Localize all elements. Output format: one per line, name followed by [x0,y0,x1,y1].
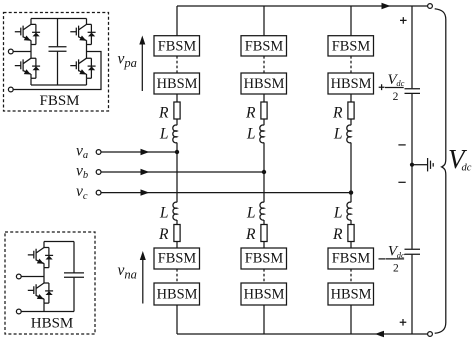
svg-text:FBSM: FBSM [245,251,284,267]
svg-text:L: L [159,126,169,143]
svg-text:R: R [245,105,256,122]
wire leg 3 bottom stub [350,305,352,334]
svg-text:FBSM: FBSM [39,93,79,109]
wire R to FBSM lower leg 2 [263,242,265,249]
wire R to L upper leg 3 [350,119,352,125]
wire dashed link FBSM-HBSM upper leg 1 [176,56,178,73]
wire lower terminal loop to right midpoint [13,52,101,90]
arrow v_pa upper arm voltage [139,36,145,92]
terminal upper HBSM [16,274,21,279]
label -Vdc/2 lower [379,244,406,275]
wire bottom rail HBSM [21,311,74,313]
transistor Q6 lower HBSM with diode D6 [28,283,53,303]
label - below midpoint [398,181,405,183]
wire Q6 emitter stub [43,303,45,311]
wire DC link middle section [411,94,413,249]
HBSM submodule box lower arm leg 3 [328,283,374,305]
node junction DC midpoint [410,163,414,167]
resistor R upper arm leg 1 [158,102,180,122]
wire R to L upper leg 1 [176,119,178,125]
capacitor Cdc1 upper DC link [405,89,421,94]
wire HBSM to R upper leg 3 [350,94,352,102]
transistor Q3 upper-right FBSM with diode D3 [70,24,95,44]
transistor Q5 upper HBSM with diode D5 [28,248,53,268]
wire dashed link FBSM-HBSM lower leg 1 [176,269,178,283]
wire HBSM to R upper leg 2 [263,94,265,102]
svg-text:L: L [333,126,343,143]
inductor L upper arm leg 1 [159,125,177,143]
capacitor C FBSM [49,19,67,86]
FBSM legend dashed enclosure [4,13,109,112]
HBSM submodule box upper arm leg 3 [328,73,374,94]
arrow phase c current [141,189,150,195]
terminal phase v_c [96,190,101,195]
arrow phase a current [141,149,150,155]
transistor Q1 upper-left FBSM with diode D1 [15,24,40,44]
svg-text:R: R [158,105,169,122]
arrow phase b current [141,169,150,175]
resistor R lower arm leg 1 [158,225,180,243]
wire FBSM bottom rail [31,84,87,86]
inductor L upper arm leg 3 [333,125,351,143]
wire leg 1 bottom stub [176,305,178,334]
wire DC link upper section [411,6,413,88]
wire leg 3 phase section [350,143,352,203]
wire R to FBSM lower leg 3 [350,242,352,249]
svg-text:L: L [246,205,256,222]
capacitor C HBSM [64,242,84,312]
svg-text:R: R [332,226,343,243]
svg-text:2: 2 [393,91,399,103]
label + bottom DC [400,319,407,326]
wire upper terminal to left midpoint [13,51,31,53]
resistor R upper arm leg 2 [245,102,267,122]
ground [428,158,434,171]
node junction phase c leg 3 [349,190,353,194]
terminal phase v_a [96,150,101,155]
wire R to L upper leg 2 [263,119,265,125]
wire R to FBSM lower leg 1 [176,242,178,249]
wire dashed link FBSM-HBSM upper leg 3 [350,56,352,73]
svg-text:L: L [333,205,343,222]
transistor Q2 lower-left FBSM with diode D2 [15,58,40,78]
wire positive DC bus top [177,5,428,7]
wire Q5 stubs [43,242,45,284]
terminal DC negative [428,332,433,337]
wire leg 3 top stub [350,6,352,36]
inductor L upper arm leg 2 [246,125,264,143]
HBSM legend dashed enclosure [5,232,95,334]
HBSM submodule box upper arm leg 1 [154,73,200,94]
transistor Q4 lower-right FBSM with diode D4 [70,58,95,78]
node junction phase b leg 2 [262,170,266,174]
wire L to R lower leg 3 [350,220,352,225]
arrow current direction bottom bus [375,331,384,338]
svg-text:HBSM: HBSM [331,76,372,92]
wire L to R lower leg 1 [176,220,178,225]
FBSM submodule box upper arm leg 3 [328,36,374,56]
wire leg 2 bottom stub [263,305,265,334]
wire Q1 stubs [30,19,32,59]
resistor R lower arm leg 3 [332,225,354,243]
FBSM submodule box lower arm leg 3 [328,248,374,269]
svg-text:2: 2 [393,262,399,274]
FBSM submodule box upper arm leg 2 [241,36,287,56]
wire Q4 emitter stub [86,78,88,85]
svg-text:HBSM: HBSM [244,286,285,302]
resistor R upper arm leg 3 [332,102,354,122]
wire dashed link FBSM-HBSM lower leg 2 [263,269,265,283]
wire phase c to leg 3 [101,192,351,194]
label - above midpoint [398,144,405,146]
svg-text:HBSM: HBSM [331,286,372,302]
HBSM submodule box lower arm leg 1 [154,283,200,305]
svg-text:FBSM: FBSM [332,251,371,267]
inductor L lower arm leg 2 [246,202,264,221]
wire leg 1 top stub [176,6,178,36]
brace DC voltage span [435,9,446,334]
capacitor Cdc2 lower DC link [405,249,421,254]
terminal lower HBSM [16,309,21,314]
arrow current direction top bus [382,3,391,10]
label +Vdc/2 upper [379,72,405,103]
wire leg 2 top stub [263,6,265,36]
wire DC link lower section [411,255,413,334]
wire Q2 emitter stub [30,78,32,85]
svg-text:HBSM: HBSM [157,76,198,92]
label + top DC [400,17,407,24]
wire upper terminal to midpoint HBSM [21,276,44,278]
svg-text:L: L [246,126,256,143]
wire HBSM top rail [44,241,74,243]
svg-text:FBSM: FBSM [245,38,284,54]
wire negative DC bus bottom [177,333,428,335]
FBSM submodule box lower arm leg 2 [241,248,287,269]
terminal upper FBSM [8,49,13,54]
svg-text:L: L [159,205,169,222]
svg-text:HBSM: HBSM [31,316,74,332]
node junction phase a leg 1 [175,150,179,154]
FBSM submodule box lower arm leg 1 [154,248,200,269]
svg-text:HBSM: HBSM [157,286,198,302]
wire L to R lower leg 2 [263,220,265,225]
svg-text:FBSM: FBSM [332,38,371,54]
svg-text:R: R [332,105,343,122]
wire FBSM top rail [31,18,87,20]
inductor L lower arm leg 3 [333,202,351,221]
resistor R lower arm leg 2 [245,225,267,243]
svg-text:R: R [245,226,256,243]
wire dashed link FBSM-HBSM upper leg 2 [263,56,265,73]
terminal phase v_b [96,170,101,175]
svg-text:FBSM: FBSM [158,251,197,267]
wire Q3 stubs [86,19,88,59]
wire leg 1 phase section [176,143,178,203]
FBSM submodule box upper arm leg 1 [154,36,200,56]
wire dashed link FBSM-HBSM lower leg 3 [350,269,352,283]
svg-text:HBSM: HBSM [244,76,285,92]
terminal DC positive [428,4,433,9]
inductor L lower arm leg 1 [159,202,177,221]
terminal lower FBSM [8,87,13,92]
HBSM submodule box upper arm leg 2 [241,73,287,94]
arrow v_na lower arm voltage [140,251,146,304]
wire phase a to leg 1 [101,151,177,153]
wire HBSM to R upper leg 1 [176,94,178,102]
svg-text:FBSM: FBSM [158,38,197,54]
wire leg 2 phase section [263,143,265,203]
svg-text:R: R [158,226,169,243]
wire midpoint to ground [412,164,427,166]
wire phase b to leg 2 [101,171,264,173]
HBSM submodule box lower arm leg 2 [241,283,287,305]
